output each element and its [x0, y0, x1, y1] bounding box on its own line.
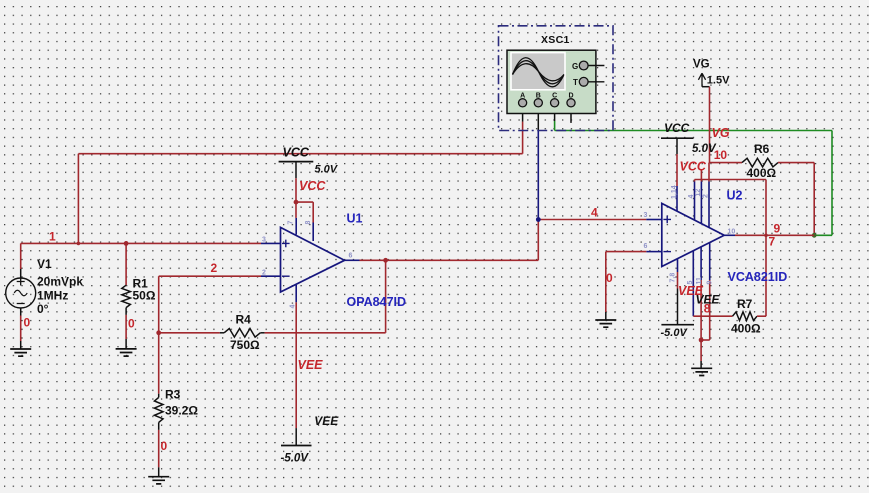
svg-text:0: 0	[24, 316, 31, 330]
svg-text:0: 0	[161, 439, 168, 453]
svg-text:R6: R6	[754, 142, 770, 156]
svg-text:2: 2	[262, 270, 266, 277]
svg-text:VG: VG	[693, 59, 710, 71]
svg-text:50Ω: 50Ω	[133, 289, 156, 303]
junction scope B / net4	[536, 217, 541, 222]
svg-text:7,8: 7,8	[670, 273, 677, 283]
svg-text:9: 9	[774, 222, 781, 236]
op-amp U1 triangle	[281, 227, 345, 292]
junction R1 top	[124, 241, 129, 246]
wire R3 to ground	[158, 430, 160, 467]
wire R6 right to net9 riser	[778, 162, 814, 164]
svg-text:OPA847ID: OPA847ID	[347, 295, 407, 309]
node 1 junction at x=78	[77, 242, 81, 246]
svg-text:6: 6	[644, 243, 648, 250]
source V1 AC	[6, 278, 36, 308]
ground below V1	[10, 349, 31, 356]
op-amp U1 power stubs pins 7,8	[295, 218, 297, 235]
junction U1 output	[383, 258, 388, 263]
svg-text:3: 3	[262, 237, 266, 244]
svg-text:VCC: VCC	[299, 179, 326, 193]
ground below R1	[116, 349, 137, 356]
svg-text:7: 7	[769, 235, 776, 249]
svg-text:V1: V1	[37, 257, 52, 271]
power VCC symbol for U2	[661, 137, 694, 139]
svg-text:1.5V: 1.5V	[707, 75, 730, 87]
svg-text:1: 1	[49, 230, 56, 244]
op-amp U2 input stubs pins 3,6	[646, 219, 662, 221]
scope terminals A B C D	[519, 99, 527, 107]
svg-text:10: 10	[714, 148, 728, 162]
power VEE bar for U1	[281, 445, 312, 447]
svg-text:7: 7	[288, 221, 295, 225]
wire net2 horizontal to U1 - input	[159, 275, 261, 277]
svg-text:A: A	[520, 93, 525, 100]
U1 plus sign	[282, 240, 290, 248]
U2 plus sign	[663, 216, 671, 224]
svg-text:1,14: 1,14	[671, 185, 678, 199]
svg-text:VCC: VCC	[283, 146, 310, 160]
wire U1 pin4 to VEE	[295, 302, 297, 428]
wire net VCC/scope-A riser at x=78	[77, 154, 79, 244]
scope terminal T	[579, 77, 588, 86]
junction feedback/net2	[156, 330, 161, 335]
wire VCC to U2 pin 1,14	[676, 154, 678, 186]
svg-text:0: 0	[128, 317, 135, 331]
scope terminal G	[579, 61, 588, 70]
U2 minus sign	[663, 251, 671, 253]
U2 top pin stubs 1,14 / 4 / 12 / 2	[676, 186, 678, 212]
U2 output stub pin10	[724, 234, 735, 236]
svg-text:20mVpk: 20mVpk	[37, 275, 83, 289]
wire scope A drop	[522, 122, 524, 154]
svg-text:D: D	[568, 93, 573, 100]
svg-text:5.0V: 5.0V	[315, 164, 339, 176]
scope channel C wire green	[554, 107, 556, 121]
wire R4 feedback horizontal	[159, 332, 220, 334]
svg-text:750Ω: 750Ω	[230, 338, 260, 352]
op-amp U1 input stubs pins 3,2	[261, 242, 281, 244]
wire U2 pin4 feedback to output	[694, 180, 696, 182]
svg-text:VEE: VEE	[314, 414, 339, 428]
wire net1 horizontal from V1 to U1 + input	[21, 242, 261, 244]
wire R1 to ground	[125, 315, 127, 339]
junction VCC pins7-8	[294, 200, 299, 205]
source VG arrow symbol	[698, 73, 705, 87]
resistor R3	[154, 397, 163, 422]
ground at U2 - input	[595, 320, 616, 327]
oscilloscope XSC1 dashed selection box	[499, 26, 614, 131]
svg-text:B: B	[536, 93, 541, 100]
scope channel D stub	[570, 107, 572, 123]
svg-text:VCC: VCC	[664, 121, 690, 135]
svg-text:VCA821ID: VCA821ID	[728, 270, 788, 284]
svg-text:R3: R3	[165, 388, 181, 402]
svg-text:R4: R4	[236, 313, 252, 327]
ground below R3	[148, 477, 169, 484]
wire U2 pin 7,8 to VEE	[677, 272, 679, 289]
resistor R1 vertical	[125, 243, 127, 285]
wire feedback riser to U1 output	[385, 260, 387, 333]
svg-text:C: C	[552, 93, 557, 100]
svg-text:U2: U2	[727, 189, 743, 203]
svg-text:R7: R7	[737, 297, 753, 311]
svg-text:XSC1: XSC1	[541, 34, 570, 46]
svg-text:5: 5	[687, 281, 694, 285]
svg-text:400Ω: 400Ω	[747, 166, 777, 180]
svg-text:9: 9	[707, 281, 714, 285]
svg-text:8: 8	[704, 302, 711, 316]
resistor R6	[742, 158, 778, 167]
junction output/R7 riser	[764, 234, 768, 238]
wire scope channel A long horizontal y=153.7	[78, 153, 522, 155]
wire U1 output to scope B / U2	[360, 259, 539, 261]
svg-text:-5.0V: -5.0V	[661, 327, 689, 339]
U1 minus sign	[282, 275, 290, 277]
wire V1 top	[20, 269, 22, 278]
U2 bottom pin stubs 7,8 / 5 / 11 / 9	[677, 259, 679, 272]
svg-text:T: T	[573, 78, 578, 87]
junction net9/green	[812, 233, 817, 238]
svg-text:12: 12	[695, 189, 702, 197]
wire U2 pin12 to VCC net label	[700, 170, 702, 182]
svg-text:2: 2	[703, 194, 710, 198]
resistor R4	[224, 329, 260, 338]
svg-text:6: 6	[349, 253, 353, 260]
svg-text:4: 4	[688, 195, 695, 199]
oscilloscope body	[507, 50, 596, 113]
svg-text:-5.0V: -5.0V	[281, 453, 310, 465]
op-amp U1 pin4 stub	[295, 285, 297, 302]
svg-text:VG: VG	[712, 126, 730, 140]
ground below U2	[691, 368, 712, 375]
wire VCC to U1 pins	[295, 178, 297, 218]
svg-text:4: 4	[591, 206, 598, 220]
wire U2 pin5 to R7	[693, 315, 732, 317]
svg-text:VEE: VEE	[298, 358, 324, 372]
power VEE bar for U2	[661, 324, 694, 326]
wire U2 output	[735, 234, 814, 236]
op-amp U1 output stub pin6	[345, 259, 360, 261]
svg-text:39.2Ω: 39.2Ω	[165, 404, 198, 418]
wire U2 pins 11,9 to ground net8	[700, 280, 702, 340]
resistor R7	[733, 312, 758, 321]
svg-text:2: 2	[211, 261, 218, 275]
svg-text:G: G	[572, 62, 578, 71]
wire net10 to R6	[709, 162, 742, 164]
svg-text:10: 10	[728, 229, 736, 236]
svg-text:400Ω: 400Ω	[731, 322, 761, 336]
wire net4 horizontal to U2	[538, 219, 646, 221]
junction net8	[699, 338, 704, 343]
svg-text:0°: 0°	[37, 302, 49, 316]
wire net2 vertical down to R3	[158, 276, 160, 394]
wire V1 bottom to ground	[20, 308, 22, 316]
power VCC symbol for U1	[279, 161, 314, 163]
svg-text:U1: U1	[347, 212, 363, 226]
svg-text:11: 11	[696, 277, 703, 285]
svg-text:8: 8	[305, 221, 312, 225]
scope channel B wire navy	[537, 131, 539, 220]
svg-text:4: 4	[290, 305, 297, 309]
svg-text:0: 0	[606, 271, 613, 285]
wire VG net10 down to U2 pin2	[709, 87, 711, 163]
op-amp U2 triangle	[662, 203, 724, 266]
svg-text:1MHz: 1MHz	[37, 289, 68, 303]
wire U2 - input to ground net0	[606, 251, 647, 253]
oscilloscope screen	[511, 53, 565, 90]
svg-text:VCC: VCC	[680, 160, 707, 174]
svg-text:3: 3	[644, 212, 648, 219]
